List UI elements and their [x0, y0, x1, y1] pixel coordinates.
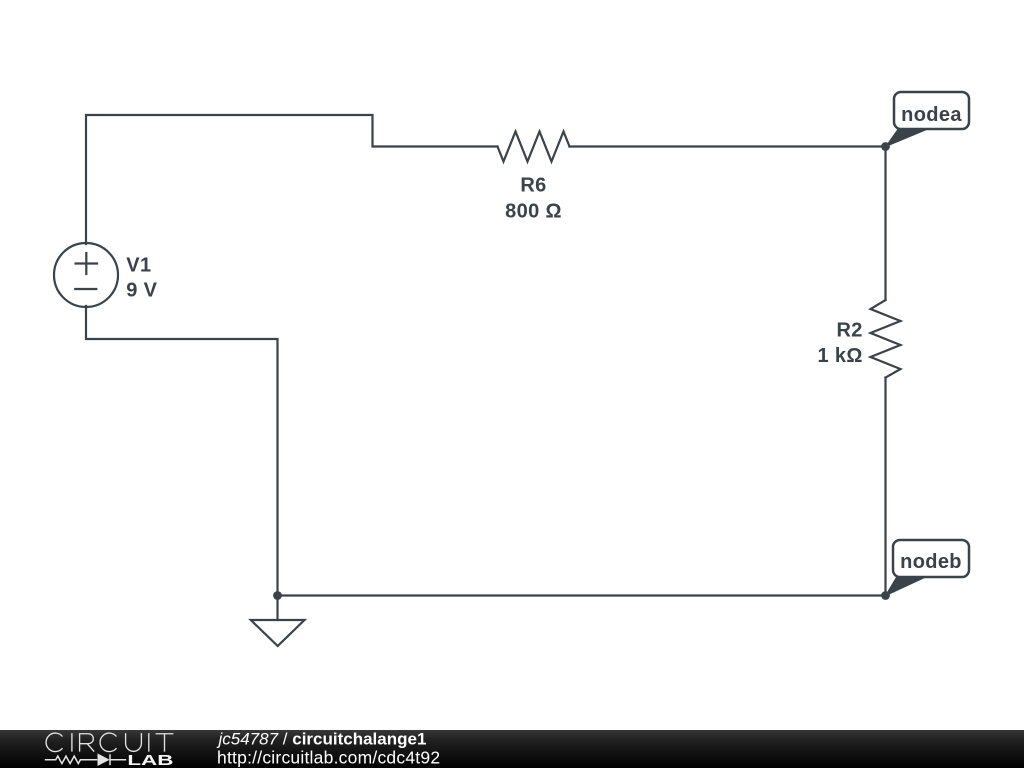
wire: ground node to node B (bottom run) — [278, 594, 886, 596]
svg-text:jc54787 / circuitchalange1: jc54787 / circuitchalange1 — [217, 729, 427, 748]
voltage source V1 — [54, 243, 118, 307]
node label nodeb — [886, 540, 970, 596]
svg-text:V1: V1 — [126, 254, 151, 276]
node B junction dot — [881, 591, 890, 600]
svg-text:1 kΩ: 1 kΩ — [818, 345, 863, 367]
svg-text:R2: R2 — [837, 320, 863, 342]
CircuitLab logo: resistor-diode squiggle — [45, 754, 126, 765]
node A junction dot — [881, 142, 890, 151]
wire: R6 right to node A — [570, 145, 886, 147]
CircuitLab logo: CIRCUIT wordmark (thin geometric strokes) — [46, 733, 173, 752]
resistor R2 — [871, 300, 901, 378]
resistor R6 — [498, 132, 570, 162]
wire: V1 top terminal up and across to R6 left (with step) — [86, 115, 498, 244]
svg-text:nodeb: nodeb — [900, 551, 962, 573]
svg-text:nodea: nodea — [901, 104, 962, 126]
svg-text:800 Ω: 800 Ω — [505, 201, 562, 223]
node label nodea — [886, 92, 969, 147]
svg-text:http://circuitlab.com/cdc4t92: http://circuitlab.com/cdc4t92 — [217, 747, 440, 767]
svg-text:R6: R6 — [520, 175, 546, 197]
ground junction dot — [273, 591, 282, 600]
svg-text:LAB: LAB — [127, 752, 173, 768]
wire: node A down to R2 top — [884, 147, 886, 301]
wire: V1 bottom terminal to ground node — [86, 306, 278, 596]
ground — [251, 596, 305, 647]
svg-text:9 V: 9 V — [126, 280, 157, 302]
wire: R2 bottom down to node B — [884, 378, 886, 596]
